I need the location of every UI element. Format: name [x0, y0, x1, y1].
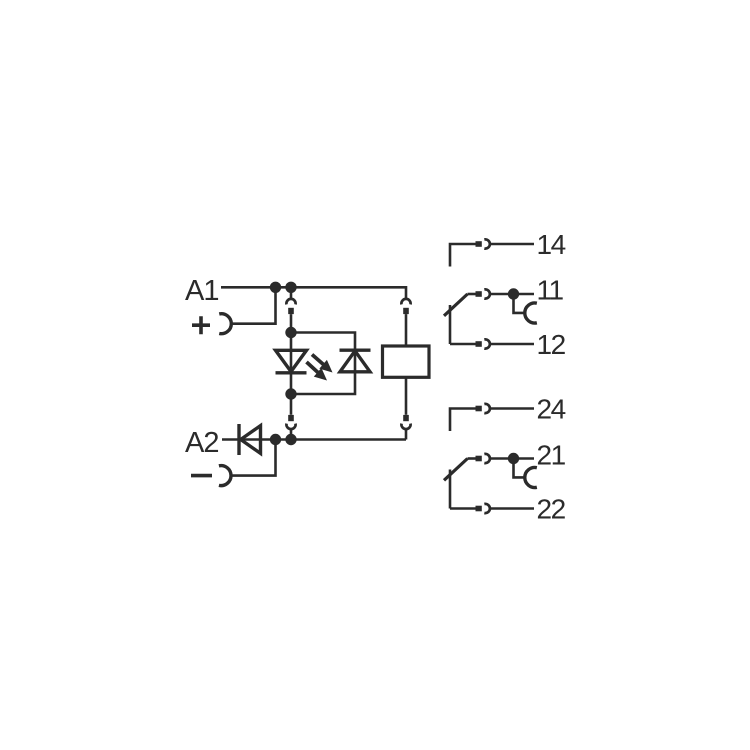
svg-text:11: 11 — [537, 275, 564, 306]
svg-text:A2: A2 — [185, 427, 218, 459]
svg-text:24: 24 — [537, 394, 566, 425]
svg-text:14: 14 — [537, 229, 566, 260]
svg-text:A1: A1 — [185, 275, 218, 307]
svg-text:12: 12 — [537, 329, 566, 360]
svg-text:22: 22 — [537, 494, 566, 525]
svg-text:21: 21 — [537, 440, 566, 471]
